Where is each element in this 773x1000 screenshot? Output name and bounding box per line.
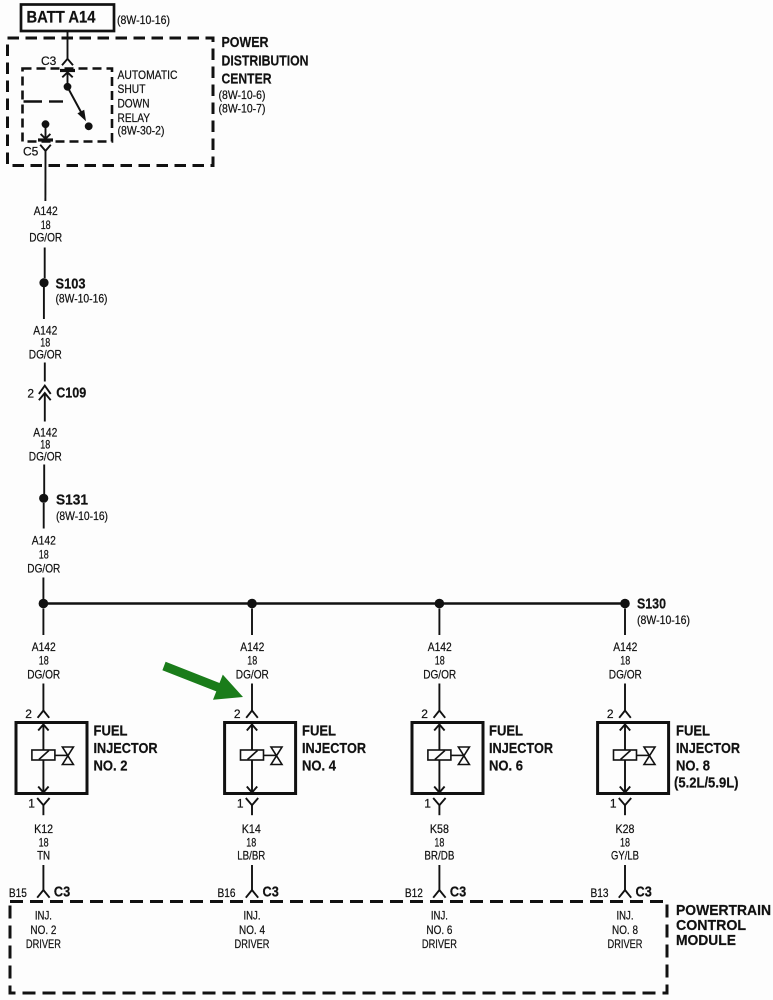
svg-text:NO. 8: NO. 8 [676, 758, 710, 775]
svg-text:(8W-10-7): (8W-10-7) [219, 101, 266, 115]
svg-text:BR/DB: BR/DB [424, 849, 454, 863]
svg-text:C3: C3 [450, 884, 466, 901]
svg-text:(8W-10-16): (8W-10-16) [56, 291, 108, 305]
svg-text:NO. 2: NO. 2 [30, 923, 56, 937]
svg-text:C109: C109 [56, 385, 86, 402]
svg-text:TN: TN [37, 849, 50, 863]
svg-text:K28: K28 [616, 822, 635, 836]
svg-text:GY/LB: GY/LB [611, 849, 639, 863]
svg-text:C3: C3 [41, 54, 57, 68]
svg-text:DG/OR: DG/OR [29, 348, 62, 362]
svg-text:B12: B12 [405, 886, 423, 900]
svg-text:BATT A14: BATT A14 [27, 8, 97, 26]
svg-text:DRIVER: DRIVER [235, 937, 270, 951]
svg-text:AUTOMATIC: AUTOMATIC [118, 68, 178, 82]
svg-text:DOWN: DOWN [118, 97, 150, 111]
svg-text:DRIVER: DRIVER [26, 937, 61, 951]
svg-text:CENTER: CENTER [222, 71, 272, 88]
svg-text:B13: B13 [591, 886, 609, 900]
svg-text:K12: K12 [34, 822, 53, 836]
svg-text:DRIVER: DRIVER [422, 937, 457, 951]
svg-text:NO. 8: NO. 8 [612, 923, 638, 937]
svg-text:FUEL: FUEL [676, 723, 710, 740]
svg-text:INJ.: INJ. [35, 909, 52, 923]
svg-text:LB/BR: LB/BR [237, 849, 265, 863]
svg-text:NO. 6: NO. 6 [489, 758, 523, 775]
svg-text:DRIVER: DRIVER [608, 937, 643, 951]
svg-text:18: 18 [434, 836, 444, 850]
svg-text:(8W-10-6): (8W-10-6) [219, 88, 266, 102]
svg-text:DISTRIBUTION: DISTRIBUTION [222, 53, 309, 70]
svg-text:B16: B16 [218, 886, 236, 900]
svg-text:18: 18 [246, 836, 256, 850]
svg-text:NO. 4: NO. 4 [239, 923, 265, 937]
svg-text:B15: B15 [9, 886, 27, 900]
svg-text:(8W-10-16): (8W-10-16) [117, 13, 170, 27]
svg-text:INJ.: INJ. [617, 909, 634, 923]
svg-text:A142: A142 [32, 534, 56, 548]
svg-text:INJECTOR: INJECTOR [94, 740, 158, 757]
svg-text:A142: A142 [34, 204, 58, 218]
svg-text:2: 2 [27, 387, 34, 401]
svg-text:C3: C3 [636, 884, 652, 901]
svg-text:S131: S131 [56, 491, 88, 508]
svg-text:INJ.: INJ. [431, 909, 448, 923]
svg-text:INJECTOR: INJECTOR [489, 740, 553, 757]
svg-text:(8W-30-2): (8W-30-2) [118, 124, 165, 138]
svg-text:18: 18 [39, 836, 49, 850]
svg-text:S130: S130 [637, 596, 666, 613]
svg-text:DG/OR: DG/OR [29, 231, 62, 245]
svg-text:C3: C3 [263, 884, 279, 901]
svg-text:NO. 4: NO. 4 [302, 758, 337, 775]
svg-text:FUEL: FUEL [302, 723, 336, 740]
svg-text:18: 18 [39, 548, 49, 562]
svg-text:FUEL: FUEL [94, 723, 128, 740]
svg-text:C3: C3 [54, 884, 70, 901]
svg-text:(8W-10-16): (8W-10-16) [637, 613, 690, 627]
svg-text:INJECTOR: INJECTOR [302, 740, 366, 757]
svg-text:INJECTOR: INJECTOR [676, 740, 740, 757]
svg-text:INJ.: INJ. [244, 909, 261, 923]
svg-text:DG/OR: DG/OR [29, 450, 62, 464]
svg-text:NO. 2: NO. 2 [94, 758, 128, 775]
svg-text:18: 18 [620, 836, 630, 850]
svg-text:S103: S103 [56, 275, 86, 292]
svg-text:NO. 6: NO. 6 [426, 923, 452, 937]
svg-text:FUEL: FUEL [489, 723, 523, 740]
svg-text:DG/OR: DG/OR [27, 562, 60, 576]
svg-text:K58: K58 [430, 822, 449, 836]
svg-text:K14: K14 [242, 822, 261, 836]
svg-text:(8W-10-16): (8W-10-16) [56, 509, 108, 523]
svg-text:C5: C5 [23, 145, 39, 159]
svg-text:SHUT: SHUT [118, 82, 147, 96]
svg-text:MODULE: MODULE [676, 932, 736, 949]
svg-text:POWER: POWER [222, 34, 269, 51]
svg-text:(5.2L/5.9L): (5.2L/5.9L) [674, 775, 739, 792]
